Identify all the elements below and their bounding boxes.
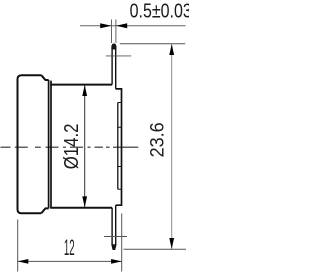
- centerline: [1, 146, 139, 148]
- svg-text:23.6: 23.6: [146, 122, 168, 157]
- cap rim lines: [49, 80, 51, 208]
- svg-text:Ø14.2: Ø14.2: [59, 124, 82, 170]
- cap: [18, 75, 49, 213]
- svg-text:12: 12: [64, 236, 75, 261]
- short line bottom: [104, 236, 127, 238]
- svg-text:0.5±0.03: 0.5±0.03: [130, 0, 189, 22]
- dim 12 extension right: [121, 214, 123, 272]
- dim 23.6 extension bottom: [124, 248, 187, 250]
- dim 12 arrows: [18, 259, 29, 264]
- pin top: [112, 44, 116, 89]
- dim 12 extension left: [17, 220, 19, 272]
- short line top: [106, 55, 131, 57]
- dim 23.6 extension top: [120, 43, 185, 45]
- dim 0.5 extension lines: [112, 20, 116, 44]
- plate ticks: [118, 103, 122, 190]
- dim 23.6 arrows: [169, 44, 174, 55]
- terminal plate: [116, 89, 122, 205]
- dim 12 line: [18, 260, 122, 262]
- plate inner line: [117, 103, 119, 190]
- pin bottom: [112, 205, 116, 249]
- dim phi14.2 line: [84, 85, 86, 207]
- dim 0.5 line: [80, 25, 185, 27]
- dim 23.6 line: [171, 44, 173, 249]
- body top edge: [50, 84, 112, 86]
- dim 0.5 arrows: [100, 23, 111, 28]
- body bottom edge: [50, 207, 112, 209]
- dim phi14.2 arrows: [82, 85, 87, 96]
